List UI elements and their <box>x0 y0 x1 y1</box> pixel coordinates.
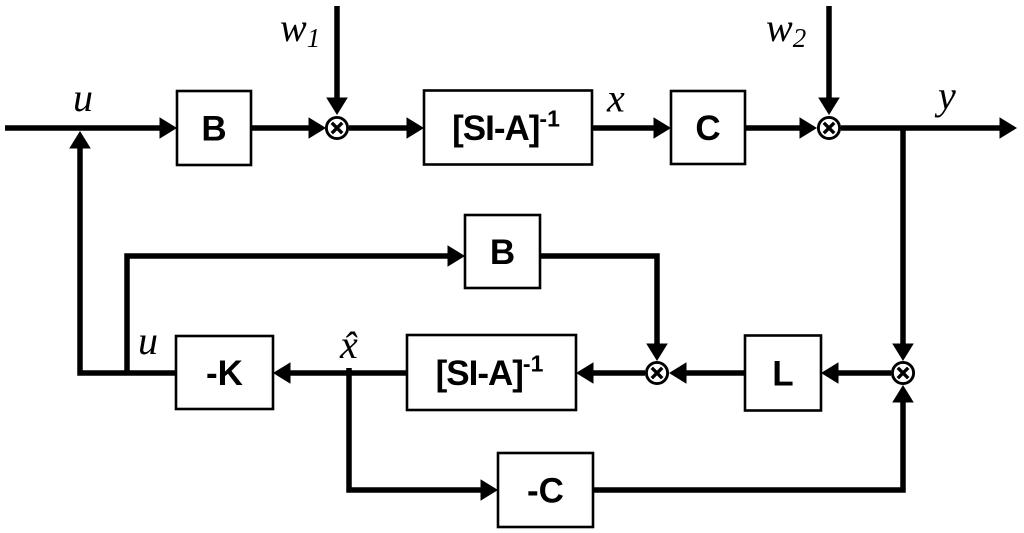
svg-text:L: L <box>772 355 793 394</box>
svg-text:x: x <box>606 76 625 121</box>
svg-text:y: y <box>934 73 956 118</box>
summing junction J2 <box>818 117 839 138</box>
block -K (state feedback gain) <box>176 336 273 409</box>
wire B2 output to junction J3 <box>540 256 668 361</box>
svg-text:u: u <box>73 75 93 120</box>
wire u input main line <box>5 117 177 139</box>
wire C to junction J2 <box>745 117 817 139</box>
wire xhat tap down to -C <box>349 368 498 501</box>
summing junction J1 <box>326 117 347 138</box>
wire [SI-A]^-1 to C <box>592 117 671 139</box>
wire w2 vertical input <box>818 6 840 115</box>
summing junction J3 <box>646 362 667 383</box>
wire J4 to L <box>821 362 891 384</box>
block -C (observer output matrix) <box>498 453 593 527</box>
block [SI-A]^-1 (plant state) U1 <box>424 91 592 165</box>
svg-text:-C: -C <box>527 472 564 511</box>
wire u feedback up to main line <box>69 131 176 373</box>
svg-text:-K: -K <box>206 354 243 393</box>
wire L to junction J3 <box>669 362 745 384</box>
block B (plant input matrix B1) <box>177 91 251 165</box>
wire y branch down to junction J4 <box>892 128 914 361</box>
block C (output matrix) <box>671 91 745 164</box>
wire u tap to observer B2 <box>127 245 465 373</box>
block B (observer input matrix B2) <box>465 215 540 288</box>
wire B1 to junction J1 <box>251 117 326 139</box>
svg-text:C: C <box>695 109 720 148</box>
block L (observer gain) <box>745 336 821 411</box>
svg-text:ˆ: ˆ <box>343 324 358 369</box>
wire J1 to [SI-A]^-1 <box>349 117 424 139</box>
block [SI-A]^-1 (observer state) U2 <box>407 335 576 410</box>
svg-text:u: u <box>138 318 158 363</box>
svg-text:B: B <box>490 233 515 272</box>
svg-text:B: B <box>201 110 226 149</box>
wire [SI-A]^-1 observer to -K <box>273 362 407 384</box>
wire w1 vertical input <box>326 6 348 115</box>
wire J3 to observer [SI-A]^-1 <box>576 362 645 384</box>
wire y output line <box>841 117 1017 139</box>
summing junction J4 <box>892 362 913 383</box>
wire -C output up to junction J4 <box>593 385 914 490</box>
